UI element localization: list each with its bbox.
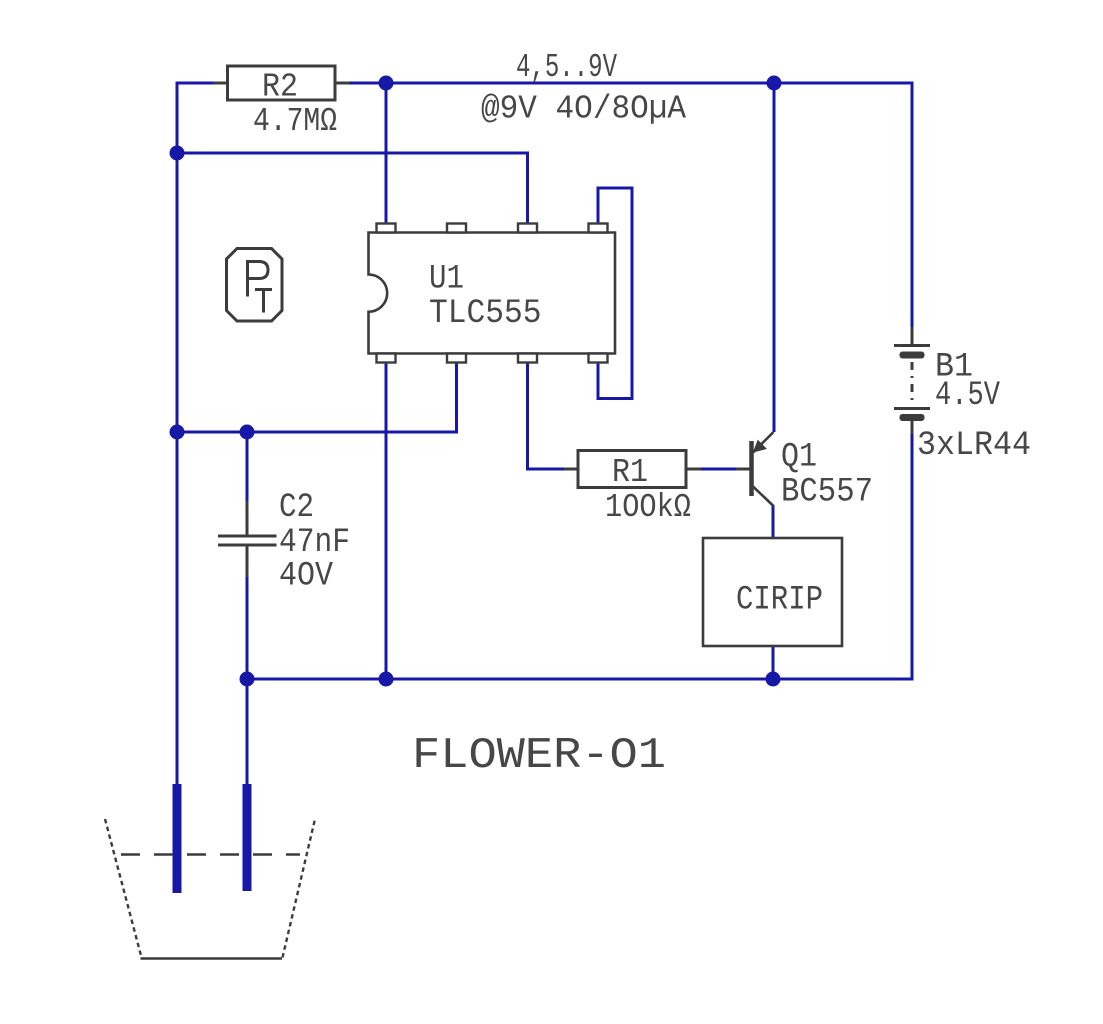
U1 pin 1 bottom stub (377, 354, 396, 363)
U1 pin 5 bottom stub (589, 354, 608, 363)
svg-text:4.5V: 4.5V (935, 377, 1000, 415)
PT logo letter P (248, 262, 269, 297)
node junction top rail R2 output (379, 76, 394, 91)
svg-text:3xLR44: 3xLR44 (917, 427, 1031, 465)
transistor Q1 emitter diagonal (753, 432, 774, 453)
wire U1 pin 3 output to R1 (528, 362, 565, 469)
PT logo letter T (255, 290, 272, 313)
wire left rail vertical (176, 82, 179, 786)
svg-text:U1: U1 (429, 261, 464, 299)
wire emitter riser Q1 to top rail (773, 83, 776, 432)
node junction left rail threshold (170, 146, 185, 161)
battery B1 cell 2 positive plate (894, 407, 930, 410)
wire riser from top rail to U1 pin 7 (385, 83, 388, 224)
svg-text:CIRIP: CIRIP (736, 582, 823, 620)
transistor Q1 collector diagonal (753, 487, 774, 507)
buzzer CIRIP box (703, 538, 842, 646)
svg-text:4,5..9V: 4,5..9V (516, 49, 617, 86)
wire reset loop pin 8 to pin 4 (598, 188, 632, 399)
flower pot right side (283, 819, 316, 958)
svg-text:Q1: Q1 (781, 439, 817, 477)
wire C2 bottom to ground and right probe (246, 577, 249, 785)
svg-text:4.7MΩ: 4.7MΩ (253, 103, 337, 140)
svg-text:FLOWER-O1: FLOWER-O1 (412, 731, 666, 781)
U1 pin 4 top stub (589, 224, 608, 233)
flower pot bottom (141, 957, 283, 960)
battery B1 cell 1 positive plate (894, 344, 930, 347)
flower pot water level dashed (121, 853, 300, 856)
battery B1 bottom lead (911, 421, 914, 434)
U1 pin 2 bottom stub (447, 354, 466, 363)
wire CIRIP bottom to ground rail (772, 646, 775, 679)
flower pot left side (105, 819, 142, 958)
wire top rail left segment to R2 (177, 82, 213, 85)
wire C2 top lead (246, 432, 249, 501)
svg-text:TLC555: TLC555 (429, 295, 542, 333)
battery B1 cell 1 negative plate (900, 352, 925, 359)
svg-text:R2: R2 (262, 69, 298, 106)
probe electrode left (173, 784, 182, 893)
transistor Q1 base lead (736, 468, 750, 471)
resistor R2 body (228, 66, 336, 100)
svg-text:C2: C2 (279, 489, 314, 527)
resistor R1 body (578, 451, 686, 488)
battery B1 cell 2 negative plate (900, 414, 925, 421)
svg-text:47nF: 47nF (279, 524, 350, 562)
svg-text:4OV: 4OV (279, 558, 334, 596)
op-amp U1 body TLC555 (369, 233, 616, 354)
node junction left rail trigger (170, 425, 185, 440)
U1 pin 7 top stub (377, 224, 396, 233)
svg-text:1OOkΩ: 1OOkΩ (605, 489, 691, 526)
node junction CIRIP ground (766, 672, 781, 687)
node junction C2 bottom ground (240, 672, 255, 687)
wire Q1 collector to CIRIP (772, 505, 775, 538)
wire U1 pin 2 trigger to left rail (177, 362, 457, 432)
transistor Q1 emitter arrow (754, 441, 766, 452)
wire ground rail bottom (247, 678, 913, 681)
wire top rail from R2 to battery corner (349, 82, 912, 85)
U1 pin 3 bottom stub (518, 354, 537, 363)
wire threshold net from left rail to U1 pin 6 (177, 153, 528, 224)
resistor R1 leads (564, 468, 701, 471)
node junction top rail emitter (767, 76, 782, 91)
U1 pin 8 top stub (518, 224, 537, 233)
battery B1 dash dot divider (911, 362, 914, 405)
PT logo box (227, 249, 283, 322)
resistor R2 leads (213, 82, 349, 85)
wire R1 to Q1 base (701, 468, 736, 471)
capacitor C2 plates (218, 536, 277, 545)
probe electrode right (243, 784, 252, 891)
svg-text:@9V 4O/8OµA: @9V 4O/8OµA (481, 91, 686, 128)
node junction pin1 ground (379, 672, 394, 687)
wire U1 pin 1 to ground rail (385, 362, 388, 679)
U1 pin 6 top stub (447, 224, 466, 233)
svg-text:R1: R1 (612, 454, 648, 491)
wire battery bottom to ground rail (911, 434, 914, 681)
capacitor C2 leads (246, 501, 249, 577)
wire battery top drop (911, 82, 914, 328)
node junction C2 top (240, 425, 255, 440)
transistor Q1 base bar (749, 441, 754, 496)
battery B1 top lead (911, 327, 914, 345)
svg-text:BC557: BC557 (781, 474, 873, 512)
